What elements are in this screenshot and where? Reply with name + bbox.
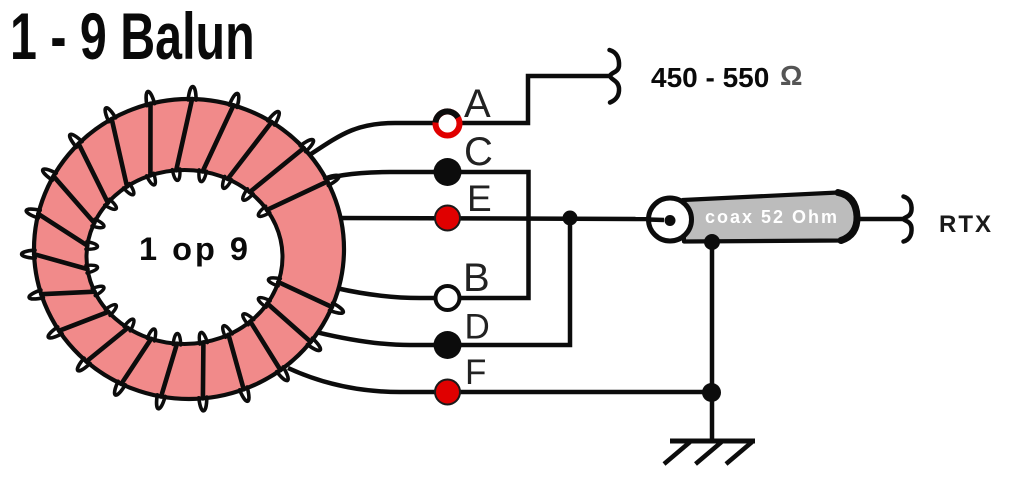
svg-text:A: A (464, 82, 491, 126)
svg-text:B: B (463, 256, 490, 300)
svg-text:C: C (464, 130, 493, 174)
svg-text:RTX: RTX (939, 211, 993, 238)
terminal F (red) (435, 380, 460, 405)
balanced load bracket (610, 50, 620, 103)
svg-text:1 op 9: 1 op 9 (139, 231, 251, 267)
toroid winding outer loops (22, 87, 344, 411)
terminal D (black) (434, 331, 462, 359)
toroid winding turns (34, 99, 332, 398)
RTX bracket (904, 197, 912, 242)
terminal E (red) (435, 206, 460, 231)
terminal A (white, red/black ring) (436, 111, 460, 135)
junction dot (E line / D branch) (563, 211, 578, 226)
wire coax to RTX (858, 217, 904, 222)
wire A (toroid to terminal A, step up to 450-550 load) (305, 76, 609, 158)
terminal C (black) (434, 158, 462, 186)
toroid winding inner loops (86, 169, 281, 345)
wire B (toroid to terminal B) (336, 288, 447, 298)
wire C (toroid to terminal C then down to terminal B) (302, 172, 529, 298)
wire F (toroid to ground line) (288, 368, 711, 392)
coax cable body (683, 193, 857, 242)
svg-text:F: F (465, 353, 486, 392)
ground symbol (664, 441, 755, 464)
svg-text:coax 52 Ohm: coax 52 Ohm (705, 207, 839, 227)
junction dot (F line / ground line) (702, 383, 721, 402)
svg-text:D: D (465, 308, 490, 347)
junction dot (coax shield) (704, 234, 720, 250)
wire D (toroid to terminal D then up to E line) (316, 218, 570, 345)
wire E (toroid to coax center) (333, 218, 648, 219)
coax connector circle (648, 198, 692, 241)
terminal B (white) (436, 286, 460, 310)
svg-text:E: E (467, 178, 492, 219)
wire coax shield to ground (710, 242, 715, 441)
svg-text:450 - 550: 450 - 550 (651, 62, 769, 93)
toroid core T1 (34, 99, 344, 399)
svg-text:Ω: Ω (780, 60, 802, 91)
svg-text:1 - 9 Balun: 1 - 9 Balun (10, 1, 255, 74)
